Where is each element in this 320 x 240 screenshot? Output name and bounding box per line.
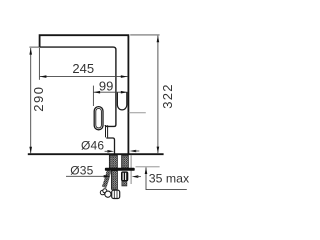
threaded shank right column [122,155,129,168]
extension line top right (322) [130,34,159,36]
mounting nut [121,171,128,181]
svg-text:245: 245 [72,61,94,76]
dimension 99 line [94,91,128,93]
mounting flange [105,168,135,171]
extension line 245 left [38,48,40,80]
step to base + base left edge [106,138,114,154]
spout bottom edge with inner rounded corner + riser left edge [40,47,116,126]
dimension 35 max [146,167,187,189]
handle lever inner contour [96,108,102,128]
svg-text:99: 99 [99,79,113,94]
dimension Ø35 leader [66,175,106,177]
handle lever outer [94,107,103,130]
U-slot inside riser [117,92,126,110]
dimension 322 line [157,36,159,154]
deck / counter line [28,153,164,155]
gray reference line right of riser [129,112,146,114]
dimension 245 line [40,76,128,78]
svg-text:290: 290 [31,85,46,111]
lock nut below [122,181,127,186]
svg-text:Ø35: Ø35 [70,164,93,178]
hose fitting 2 (hex nut) [112,190,120,198]
hose 1 curved to lower-left [104,171,109,188]
neck double line below handle [105,125,107,137]
hose 2 straight down [111,171,117,190]
counter bottom thin line [136,166,160,168]
spout outline (top horizontal tube + riser right edge) [40,35,129,153]
threaded shank left column [109,155,117,168]
hose fitting 1 (angled hex) [100,190,105,195]
dimension 290 line [30,48,32,153]
extension line 99 left [92,86,94,106]
svg-text:35 max: 35 max [149,172,190,186]
dimension Ø46 arrows [107,150,114,153]
extension line spout-bottom left (290) [29,46,39,48]
counter hole edge gray line [130,155,132,184]
svg-text:Ø46: Ø46 [81,139,104,153]
svg-text:322: 322 [160,83,175,109]
